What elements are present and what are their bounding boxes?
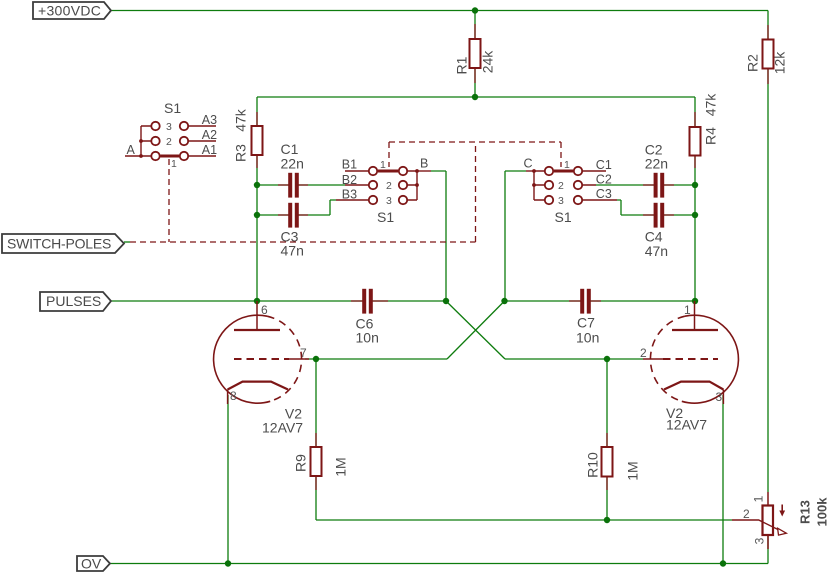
pin 3 lead <box>767 535 769 549</box>
svg-text:22n: 22n <box>281 155 304 171</box>
wire grid-leak bus y520 <box>316 519 732 521</box>
svg-text:12AV7: 12AV7 <box>262 419 303 435</box>
junction node X2 <box>501 298 507 304</box>
svg-text:S1: S1 <box>164 100 181 116</box>
svg-text:R9: R9 <box>293 454 309 472</box>
ground flag OV <box>77 556 110 572</box>
capacitor C1 <box>278 173 308 198</box>
tube envelope solid arc <box>682 315 739 403</box>
wire C4 row to C3 contact <box>617 200 695 215</box>
net flag PULSES <box>40 292 111 311</box>
wire top bus +300VDC <box>110 10 768 12</box>
cathode lead pin 8 <box>227 390 229 405</box>
wire C1 row B2 <box>257 184 345 186</box>
potentiometer R13 <box>732 492 786 549</box>
svg-text:47n: 47n <box>281 243 304 259</box>
junction node right cathode bottom <box>720 560 726 566</box>
svg-text:R1: R1 <box>454 56 470 74</box>
anode lead pin 6 <box>256 301 258 330</box>
svg-text:B1: B1 <box>342 158 357 172</box>
svg-text:12k: 12k <box>772 51 788 75</box>
svg-text:1: 1 <box>380 159 386 171</box>
junction node left cathode bottom <box>225 560 231 566</box>
junction node right anode <box>692 298 698 304</box>
wire left cathode drop <box>227 395 229 564</box>
svg-text:47k: 47k <box>703 93 719 117</box>
svg-text:SWITCH-POLES: SWITCH-POLES <box>7 236 111 252</box>
anode plate bar <box>234 329 280 331</box>
junction node on top bus at R1 <box>472 7 478 13</box>
cathode <box>664 382 723 390</box>
switch S1 section A <box>125 122 216 160</box>
junction node C3 left <box>254 212 260 218</box>
svg-text:3: 3 <box>386 195 392 207</box>
svg-text:24k: 24k <box>480 50 496 74</box>
resistor R10 <box>602 433 613 490</box>
svg-text:1: 1 <box>752 495 766 502</box>
svg-text:3: 3 <box>753 537 767 544</box>
svg-text:A: A <box>127 143 136 157</box>
tube envelope solid arc <box>214 315 271 403</box>
svg-text:A2: A2 <box>202 128 217 142</box>
wire C common vertical <box>505 171 526 301</box>
junction node left anode <box>254 298 260 304</box>
capacitor C4 <box>643 203 674 228</box>
capacitor C2 <box>643 173 674 198</box>
grid dashed line <box>234 358 289 360</box>
wire right cathode drop <box>722 395 724 564</box>
body <box>763 506 774 536</box>
svg-text:PULSES: PULSES <box>46 293 101 309</box>
junction node anode bus at R1 <box>472 94 478 100</box>
switch linkage dashed line from S1-A wiper <box>168 159 170 242</box>
svg-text:100k: 100k <box>814 497 829 527</box>
svg-text:C3: C3 <box>596 187 612 201</box>
wire left grid bus <box>305 358 447 360</box>
wire R9 column <box>315 359 317 520</box>
wire anode bus y97 <box>257 96 695 98</box>
svg-text:R10: R10 <box>585 452 601 478</box>
svg-text:47n: 47n <box>645 243 668 259</box>
junction node R10 bottom <box>604 517 610 523</box>
power flag +300VDC <box>33 2 111 19</box>
switch linkage dashed vertical riser <box>475 142 477 242</box>
svg-text:R3: R3 <box>233 144 249 162</box>
junction node C4 right <box>692 212 698 218</box>
svg-text:1: 1 <box>564 159 570 171</box>
adjuster arrow <box>781 505 783 513</box>
junction node right grid <box>604 356 610 362</box>
junction node C1 left <box>254 182 260 188</box>
svg-text:S1: S1 <box>377 209 394 225</box>
switch linkage dashed line SWITCH-POLES horizontal <box>130 241 476 243</box>
wire R1 column <box>474 11 476 98</box>
capacitor C7 <box>569 289 601 314</box>
capacitor C3 <box>278 203 308 228</box>
svg-text:1: 1 <box>171 158 177 170</box>
svg-text:C7: C7 <box>577 315 595 331</box>
capacitor C6 <box>351 289 388 314</box>
svg-text:10n: 10n <box>356 330 379 346</box>
svg-text:1M: 1M <box>625 461 641 480</box>
svg-text:12AV7: 12AV7 <box>666 417 707 433</box>
svg-text:2: 2 <box>743 507 750 521</box>
tube envelope dashed arc <box>650 316 684 401</box>
switch linkage dashed drop to S1-C wiper <box>560 142 562 167</box>
svg-text:A1: A1 <box>202 143 217 157</box>
switch linkage dashed top horizontal <box>389 141 561 143</box>
svg-text:2: 2 <box>558 180 564 192</box>
tube V2 right triode 12AV7 <box>643 301 738 404</box>
grid lead pin 2 <box>643 358 663 360</box>
grid lead pin 7 <box>289 358 309 360</box>
svg-text:6: 6 <box>261 303 268 317</box>
svg-text:R13: R13 <box>797 500 812 524</box>
svg-text:3: 3 <box>716 390 723 404</box>
svg-text:OV: OV <box>81 556 102 572</box>
wire R3 column <box>256 97 258 301</box>
wire B common vertical <box>431 171 446 301</box>
svg-text:8: 8 <box>230 389 237 403</box>
svg-text:2: 2 <box>166 136 172 148</box>
switch linkage dashed drop to S1-B wiper <box>388 142 390 167</box>
svg-text:B2: B2 <box>342 173 357 187</box>
wire node X2 to right anode <box>505 300 696 302</box>
wire C3 row to B3 <box>257 200 336 215</box>
resistor R3 <box>252 112 263 168</box>
wiper lead pin 2 <box>732 520 786 534</box>
svg-text:R2: R2 <box>745 54 761 72</box>
junction node X1 <box>443 298 449 304</box>
tube envelope dashed arc <box>267 316 301 401</box>
svg-text:+300VDC: +300VDC <box>38 3 101 19</box>
svg-text:C1: C1 <box>596 158 612 172</box>
resistor R1 <box>470 24 481 83</box>
wire cross diagonal X2 to left grid <box>447 301 505 359</box>
pin 1 lead <box>767 492 769 506</box>
wire bottom bus OV <box>110 563 768 565</box>
svg-text:7: 7 <box>300 346 307 360</box>
wire right grid bus <box>505 358 643 360</box>
svg-text:3: 3 <box>558 195 564 207</box>
svg-text:47k: 47k <box>233 108 249 132</box>
junction node C2 right <box>692 182 698 188</box>
switch S1 section C <box>526 167 617 204</box>
anode lead pin 1 <box>694 301 696 330</box>
wire R13 pin3 drop <box>767 535 769 564</box>
svg-text:2: 2 <box>386 180 392 192</box>
svg-text:C2: C2 <box>596 173 612 187</box>
wire C2 row <box>596 184 695 186</box>
svg-text:3: 3 <box>166 121 172 133</box>
anode plate bar <box>672 329 718 331</box>
svg-text:1M: 1M <box>333 457 349 476</box>
wire R4 column <box>694 97 696 301</box>
svg-text:22n: 22n <box>645 155 668 171</box>
svg-text:2: 2 <box>640 346 647 360</box>
svg-text:1: 1 <box>684 303 691 317</box>
switch S1 section B <box>336 167 431 204</box>
svg-text:A3: A3 <box>202 113 217 127</box>
svg-text:C: C <box>524 157 533 171</box>
svg-text:R4: R4 <box>703 127 719 145</box>
svg-text:10n: 10n <box>576 329 599 345</box>
wire R10 column <box>606 359 608 520</box>
cathode <box>228 382 288 390</box>
svg-text:B3: B3 <box>342 188 357 202</box>
grid dashed line <box>663 358 718 360</box>
net flag SWITCH-POLES <box>2 234 130 253</box>
wire R2 right column <box>767 11 769 493</box>
wiper open arrowhead <box>778 528 787 535</box>
wire PULSES to node X1 <box>111 300 446 302</box>
wire cross diagonal X1 to right grid <box>446 301 505 359</box>
tube V2 left triode 12AV7 <box>214 301 309 404</box>
resistor R2 <box>763 25 774 84</box>
svg-text:B: B <box>420 157 428 171</box>
svg-text:S1: S1 <box>555 209 572 225</box>
junction node left grid <box>313 356 319 362</box>
cathode lead pin 3 <box>722 390 724 405</box>
resistor R9 <box>311 433 322 490</box>
resistor R4 <box>690 112 701 168</box>
